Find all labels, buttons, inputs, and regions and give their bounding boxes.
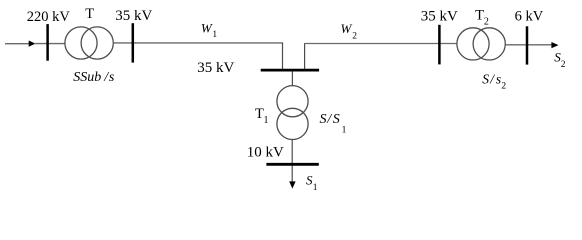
svg-text:W: W (201, 20, 213, 35)
wire drop W2 to middle bus (304, 43, 306, 69)
svg-text:1: 1 (212, 30, 217, 40)
wire W2 (304, 43, 457, 45)
middle bus 35 kV (261, 69, 319, 72)
svg-text:35 kV: 35 kV (197, 60, 234, 76)
svg-text:2: 2 (352, 31, 357, 41)
wire incoming left (5, 43, 30, 45)
transformer T (65, 27, 97, 59)
svg-text:10 kV: 10 kV (247, 144, 284, 160)
wire T2 to load arrow S2 (505, 44, 552, 46)
svg-text:35 kV: 35 kV (115, 8, 152, 24)
wire T1 down to load (291, 140, 293, 183)
arrow incoming (system feed) (29, 41, 36, 47)
svg-text:S/s: S/s (482, 71, 501, 86)
wire stub bus to T1 (291, 72, 293, 87)
bus 6 kV (526, 26, 529, 64)
bus 35 kV left (132, 23, 135, 62)
arrow S1 down (289, 181, 295, 188)
svg-text:2: 2 (561, 60, 566, 70)
wire W1 (113, 42, 283, 44)
svg-text:SSub/s: SSub/s (73, 70, 115, 85)
transformer T2 (457, 28, 489, 60)
bus 35 kV right (438, 25, 441, 65)
bus 220 kV (46, 24, 49, 61)
svg-text:2: 2 (484, 16, 489, 27)
svg-text:1: 1 (342, 125, 347, 135)
svg-text:W: W (341, 21, 353, 36)
bus 10 kV (266, 163, 318, 166)
svg-text:S/S: S/S (320, 112, 340, 127)
svg-text:220 kV: 220 kV (27, 9, 71, 25)
svg-text:35 kV: 35 kV (421, 9, 458, 25)
svg-text:T: T (475, 8, 484, 24)
wire drop W1 to middle bus (282, 43, 284, 69)
svg-text:6 kV: 6 kV (515, 9, 544, 25)
svg-text:1: 1 (264, 115, 269, 126)
svg-text:T: T (85, 6, 94, 22)
transformer T1 (277, 86, 308, 117)
arrow S2 right (551, 42, 558, 48)
svg-text:2: 2 (501, 82, 506, 92)
svg-text:1: 1 (313, 183, 318, 193)
wire arrow to transformer T (34, 43, 65, 45)
